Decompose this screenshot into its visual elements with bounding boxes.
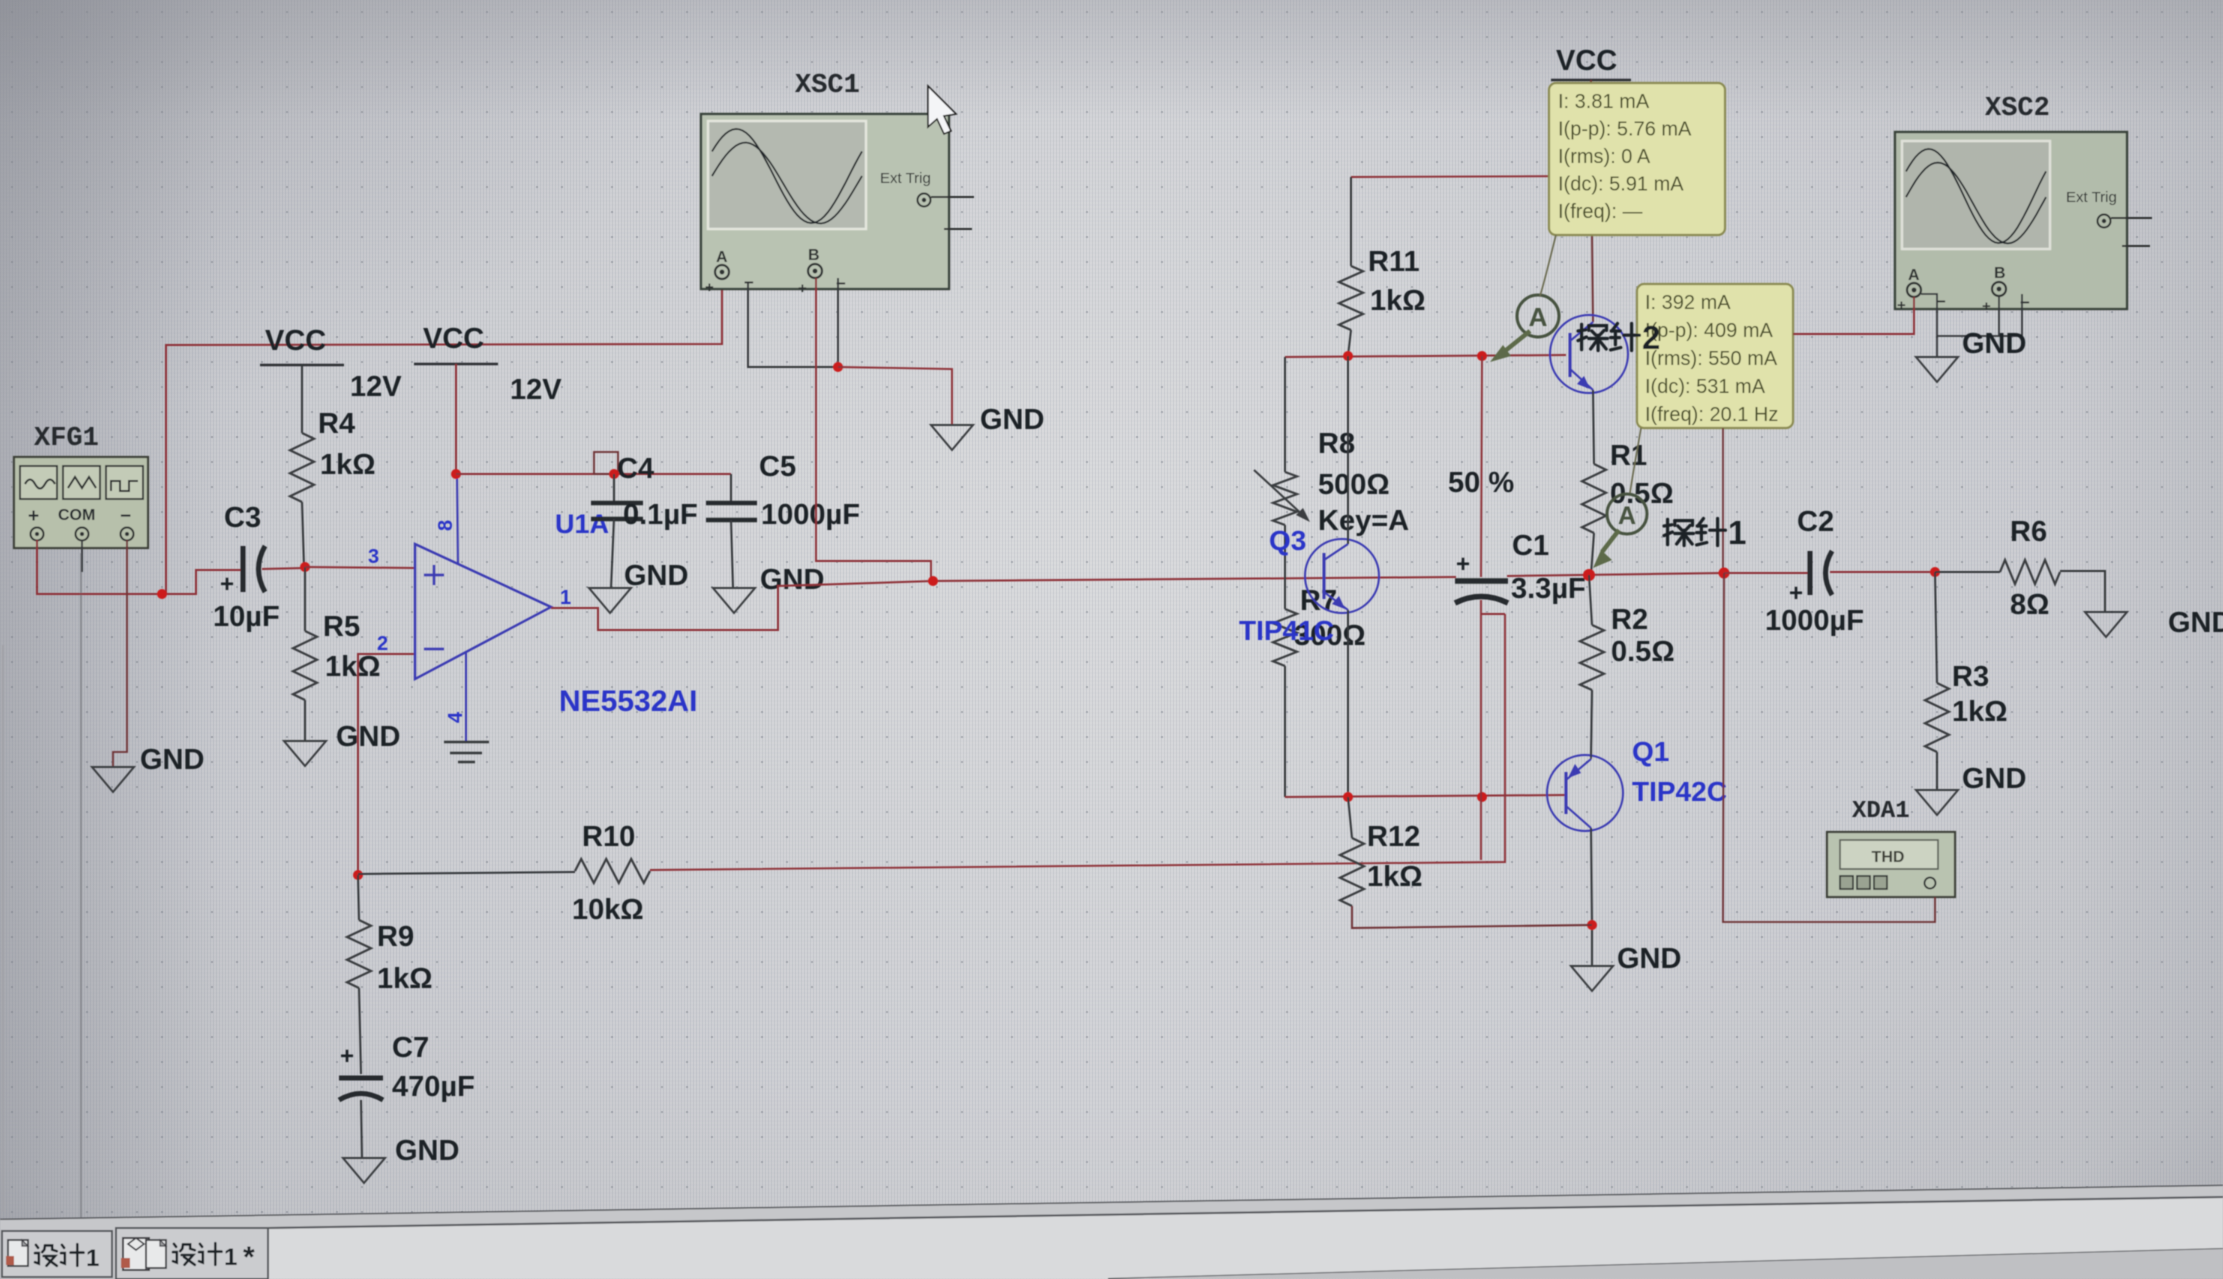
- svg-text:0.5Ω: 0.5Ω: [1611, 636, 1675, 668]
- measurement box probe2 top: [1549, 83, 1725, 235]
- capacitor C5 1000uF: [706, 451, 860, 588]
- svg-text:+: +: [1456, 551, 1470, 578]
- svg-text:GND: GND: [1617, 943, 1681, 975]
- svg-text:I: 3.81 mA: I: 3.81 mA: [1558, 91, 1650, 113]
- wire XSC2 B stubs: [1998, 296, 2000, 336]
- svg-text:+: +: [705, 279, 714, 296]
- junction output node: [1583, 569, 1595, 581]
- svg-text:GND: GND: [2168, 607, 2223, 639]
- svg-text:−: −: [120, 506, 131, 527]
- svg-text:10µF: 10µF: [213, 601, 280, 633]
- svg-text:C3: C3: [224, 502, 261, 534]
- svg-text:R4: R4: [318, 408, 355, 440]
- wire VCC to R11: [1351, 176, 1593, 177]
- node input junction: [300, 562, 310, 572]
- wire VCC3 to Q2 collector: [1591, 80, 1593, 322]
- svg-text:−: −: [744, 273, 754, 292]
- svg-text:GND: GND: [1962, 763, 2026, 795]
- capacitor C2 1000uF: [1724, 506, 1935, 637]
- wire scope B minus: [837, 278, 839, 367]
- svg-text:1: 1: [1728, 514, 1746, 551]
- instrument XSC1 oscilloscope: [701, 71, 974, 297]
- wire XFG1 plus output: [37, 540, 243, 594]
- op-amp U1A NE5532: [415, 544, 551, 679]
- wire op-amp pin8 to VCC: [457, 474, 458, 564]
- svg-text:4: 4: [445, 711, 467, 723]
- svg-text:1kΩ: 1kΩ: [325, 651, 381, 683]
- wire bottom bias rail: [1285, 795, 1566, 797]
- transistor Q2 TIP41C top: [1550, 315, 1628, 393]
- svg-text:0.1µF: 0.1µF: [623, 499, 698, 531]
- svg-text:I(freq): 20.1 Hz: I(freq): 20.1 Hz: [1645, 404, 1778, 426]
- svg-text:1: 1: [86, 1245, 99, 1272]
- svg-text:VCC: VCC: [423, 323, 484, 355]
- ground under XFG1: [92, 767, 134, 792]
- svg-text:A: A: [716, 249, 728, 266]
- svg-text:3.3µF: 3.3µF: [1511, 573, 1586, 605]
- svg-text:A: A: [1908, 267, 1920, 284]
- svg-text:1: 1: [560, 587, 571, 609]
- screen bezel left line: [2, 645, 4, 1212]
- svg-text:Ext Trig: Ext Trig: [880, 170, 931, 187]
- junction Q1 ground node: [1587, 920, 1597, 930]
- ground under R3: [1916, 790, 1958, 815]
- svg-text:Q1: Q1: [1632, 736, 1669, 767]
- ground under XSC2: [1916, 357, 1958, 382]
- svg-text:1kΩ: 1kΩ: [1367, 861, 1423, 893]
- capacitor C1 3.3uF: [1455, 530, 1586, 605]
- ground right of R6: [2085, 612, 2127, 637]
- svg-text:3: 3: [368, 546, 379, 568]
- resistor R4 1k: [290, 365, 376, 567]
- svg-text:500Ω: 500Ω: [1318, 469, 1390, 501]
- op-amp pin4 earth ground: [444, 652, 489, 762]
- wire XFG1 minus to ground: [113, 540, 127, 767]
- capacitor C4 0.1uF: [591, 453, 698, 588]
- junction output left: [928, 576, 938, 586]
- svg-text:XSC1: XSC1: [795, 71, 860, 101]
- svg-text:+: +: [28, 506, 39, 527]
- svg-text:1kΩ: 1kΩ: [1370, 285, 1426, 317]
- svg-text:GND: GND: [980, 404, 1044, 436]
- leader line box to probe2: [1540, 235, 1556, 296]
- resistor R12 1k: [1340, 797, 1592, 928]
- svg-text:12V: 12V: [510, 374, 562, 406]
- svg-text:I(rms): 550 mA: I(rms): 550 mA: [1645, 348, 1778, 370]
- junction near XFG1: [157, 589, 167, 599]
- wire XSC2 A to amp: [1793, 297, 1914, 334]
- wire XDA1 input: [1723, 573, 1935, 922]
- svg-text:B: B: [1994, 265, 2006, 282]
- svg-text:+: +: [1982, 298, 1991, 315]
- resistor R3 1k: [1925, 572, 2008, 790]
- svg-text:*: *: [243, 1241, 255, 1274]
- ground under C4: [589, 588, 631, 613]
- ground under C5: [713, 588, 755, 613]
- tab design1 star: [116, 1228, 268, 1279]
- wire C3 to input node: [262, 568, 305, 569]
- svg-text:XDA1: XDA1: [1852, 798, 1910, 825]
- svg-text:GND: GND: [760, 564, 824, 596]
- mouse cursor: [928, 86, 956, 134]
- wire scope B to output node: [816, 278, 931, 581]
- svg-text:R6: R6: [2010, 516, 2047, 548]
- svg-text:GND: GND: [1962, 328, 2026, 360]
- svg-text:I(dc): 5.91 mA: I(dc): 5.91 mA: [1558, 174, 1684, 196]
- svg-text:TIP42C: TIP42C: [1632, 776, 1727, 807]
- svg-text:R11: R11: [1368, 246, 1420, 278]
- svg-text:A: A: [1618, 502, 1636, 530]
- probe label 1 hanzi: [1666, 519, 1669, 544]
- svg-text:R8: R8: [1318, 428, 1355, 460]
- capacitor C7 470uF: [339, 1032, 475, 1158]
- svg-text:1000µF: 1000µF: [761, 499, 860, 531]
- wire scope A minus: [748, 283, 836, 367]
- wire op-amp pin3: [305, 567, 415, 568]
- svg-text:GND: GND: [624, 560, 688, 592]
- potentiometer R8 500: [1254, 428, 1514, 537]
- svg-text:R2: R2: [1611, 604, 1648, 636]
- svg-text:B: B: [808, 247, 820, 264]
- svg-text:1: 1: [224, 1244, 237, 1271]
- net marker box at C4: [594, 452, 618, 474]
- wire main output line: [933, 577, 1456, 581]
- svg-text:R10: R10: [582, 821, 635, 853]
- probe label 2 hanzi: [1580, 324, 1583, 349]
- wire R8 to R7: [1284, 525, 1286, 609]
- wire XFG1 COM stub: [81, 540, 83, 572]
- svg-text:R3: R3: [1952, 661, 1989, 693]
- svg-text:1kΩ: 1kΩ: [1952, 696, 2008, 728]
- probe ammeter A circle at R1: [1607, 494, 1647, 534]
- svg-text:8Ω: 8Ω: [2010, 589, 2049, 621]
- svg-text:Key=A: Key=A: [1318, 505, 1409, 537]
- svg-text:8: 8: [435, 520, 457, 531]
- wire XFG1 node to scope A: [166, 279, 722, 594]
- resistor R2 0.5: [1580, 575, 1675, 757]
- probe ammeter A circle top: [1517, 295, 1559, 337]
- svg-text:Q3: Q3: [1269, 525, 1306, 556]
- junction pin8/C4: [451, 469, 461, 479]
- resistor R1 0.5: [1582, 390, 1674, 575]
- resistor R6 8ohm: [1935, 516, 2105, 621]
- capacitor C3 10uF: [213, 502, 280, 633]
- probe arrow at output: [1602, 530, 1619, 552]
- canvas bottom edge: [0, 1186, 2223, 1220]
- power VCC rail 2: [414, 323, 562, 406]
- svg-text:TIP41C: TIP41C: [1239, 615, 1334, 646]
- svg-text:Ext Trig: Ext Trig: [2066, 189, 2117, 206]
- wire op-amp pin2: [358, 654, 415, 875]
- wire Q3 emitter: [1347, 610, 1349, 797]
- measurement box probe1: [1637, 284, 1793, 428]
- active tab strip: [268, 1197, 2223, 1279]
- svg-text:C2: C2: [1797, 506, 1834, 538]
- resistor R11 1k: [1339, 177, 1426, 356]
- junction feedback node: [353, 870, 363, 880]
- ground under C7: [343, 1158, 385, 1183]
- wire Q1 collector to ground: [1591, 828, 1592, 966]
- resistor R9 1k: [347, 875, 433, 1074]
- leader line box2 to node: [1722, 428, 1724, 573]
- svg-text:10kΩ: 10kΩ: [572, 894, 644, 926]
- ground under R5: [284, 741, 326, 766]
- svg-text:NE5532AI: NE5532AI: [559, 685, 697, 718]
- junction R3 top: [1930, 567, 1940, 577]
- svg-text:C1: C1: [1512, 530, 1549, 562]
- svg-text:1kΩ: 1kΩ: [320, 449, 376, 481]
- svg-text:I(freq): —: I(freq): —: [1558, 201, 1642, 223]
- svg-text:GND: GND: [140, 744, 204, 776]
- svg-text:R9: R9: [377, 921, 414, 953]
- svg-text:I(p-p): 5.76 mA: I(p-p): 5.76 mA: [1558, 119, 1692, 141]
- svg-text:1kΩ: 1kΩ: [377, 963, 433, 995]
- junction C4 top: [609, 469, 619, 479]
- ground under scope1: [931, 425, 973, 450]
- svg-text:+: +: [1789, 580, 1803, 607]
- svg-text:GND: GND: [395, 1135, 459, 1167]
- wire scope ground: [838, 367, 952, 425]
- instrument XFG1 function generator: [14, 424, 148, 548]
- svg-text:+: +: [1897, 297, 1906, 314]
- ground under Q1: [1571, 966, 1613, 991]
- transistor Q1 TIP42C: [1547, 736, 1727, 831]
- svg-text:XFG1: XFG1: [34, 424, 99, 454]
- svg-text:12V: 12V: [350, 371, 402, 403]
- svg-text:XSC2: XSC2: [1985, 94, 2050, 124]
- svg-text:VCC: VCC: [265, 325, 326, 357]
- svg-text:C7: C7: [392, 1032, 429, 1064]
- svg-text:+: +: [340, 1043, 354, 1070]
- svg-text:THD: THD: [1872, 849, 1905, 866]
- wire left bias column top: [1284, 357, 1286, 472]
- tab design1: [2, 1231, 112, 1277]
- svg-text:I: 392 mA: I: 392 mA: [1645, 292, 1731, 314]
- svg-text:A: A: [1529, 302, 1548, 332]
- junction scope ground node: [833, 362, 843, 372]
- svg-text:U1A: U1A: [555, 509, 609, 539]
- probe arrow top: [1505, 331, 1530, 351]
- wire top bias rail: [1285, 355, 1566, 357]
- sheet left border: [80, 553, 82, 1218]
- svg-text:R5: R5: [323, 611, 360, 643]
- svg-text:I(p-p): 409 mA: I(p-p): 409 mA: [1645, 320, 1773, 342]
- svg-text:1000µF: 1000µF: [1765, 605, 1864, 637]
- wire R10 to C1 bottom: [650, 614, 1505, 870]
- svg-text:C4: C4: [617, 453, 654, 485]
- wire Q3 collector: [1347, 356, 1349, 544]
- instrument XSC2 oscilloscope: [1895, 94, 2152, 315]
- svg-text:2: 2: [1642, 319, 1660, 356]
- resistor R5 1k: [293, 567, 381, 741]
- wire Q1 emitter: [1591, 690, 1592, 759]
- svg-text:VCC: VCC: [1556, 45, 1617, 77]
- junction speaker node: [1719, 568, 1730, 579]
- svg-text:+: +: [798, 280, 807, 297]
- leader line box2 curvy: [1630, 428, 1641, 493]
- svg-text:R12: R12: [1367, 821, 1420, 853]
- svg-text:2: 2: [377, 633, 388, 655]
- svg-text:GND: GND: [336, 721, 400, 753]
- svg-text:470µF: 470µF: [392, 1071, 475, 1103]
- resistor R7 300: [1273, 585, 1366, 797]
- instrument XDA1 distortion analyzer: [1827, 798, 1955, 897]
- wire VCC to C4 C5: [456, 473, 731, 475]
- svg-text:C5: C5: [759, 451, 796, 483]
- transistor Q3 TIP41C: [1239, 525, 1379, 646]
- svg-text:I(dc): 531 mA: I(dc): 531 mA: [1645, 376, 1766, 398]
- resistor R10 10k: [358, 821, 650, 926]
- svg-text:I(rms): 0 A: I(rms): 0 A: [1558, 146, 1651, 168]
- power VCC rail 1: [260, 325, 402, 403]
- svg-text:+: +: [220, 571, 234, 598]
- svg-text:COM: COM: [58, 507, 95, 524]
- svg-text:R1: R1: [1610, 440, 1647, 472]
- wire bootstrap column: [1481, 356, 1482, 577]
- wire XSC2 A minus to ground: [1921, 294, 1937, 357]
